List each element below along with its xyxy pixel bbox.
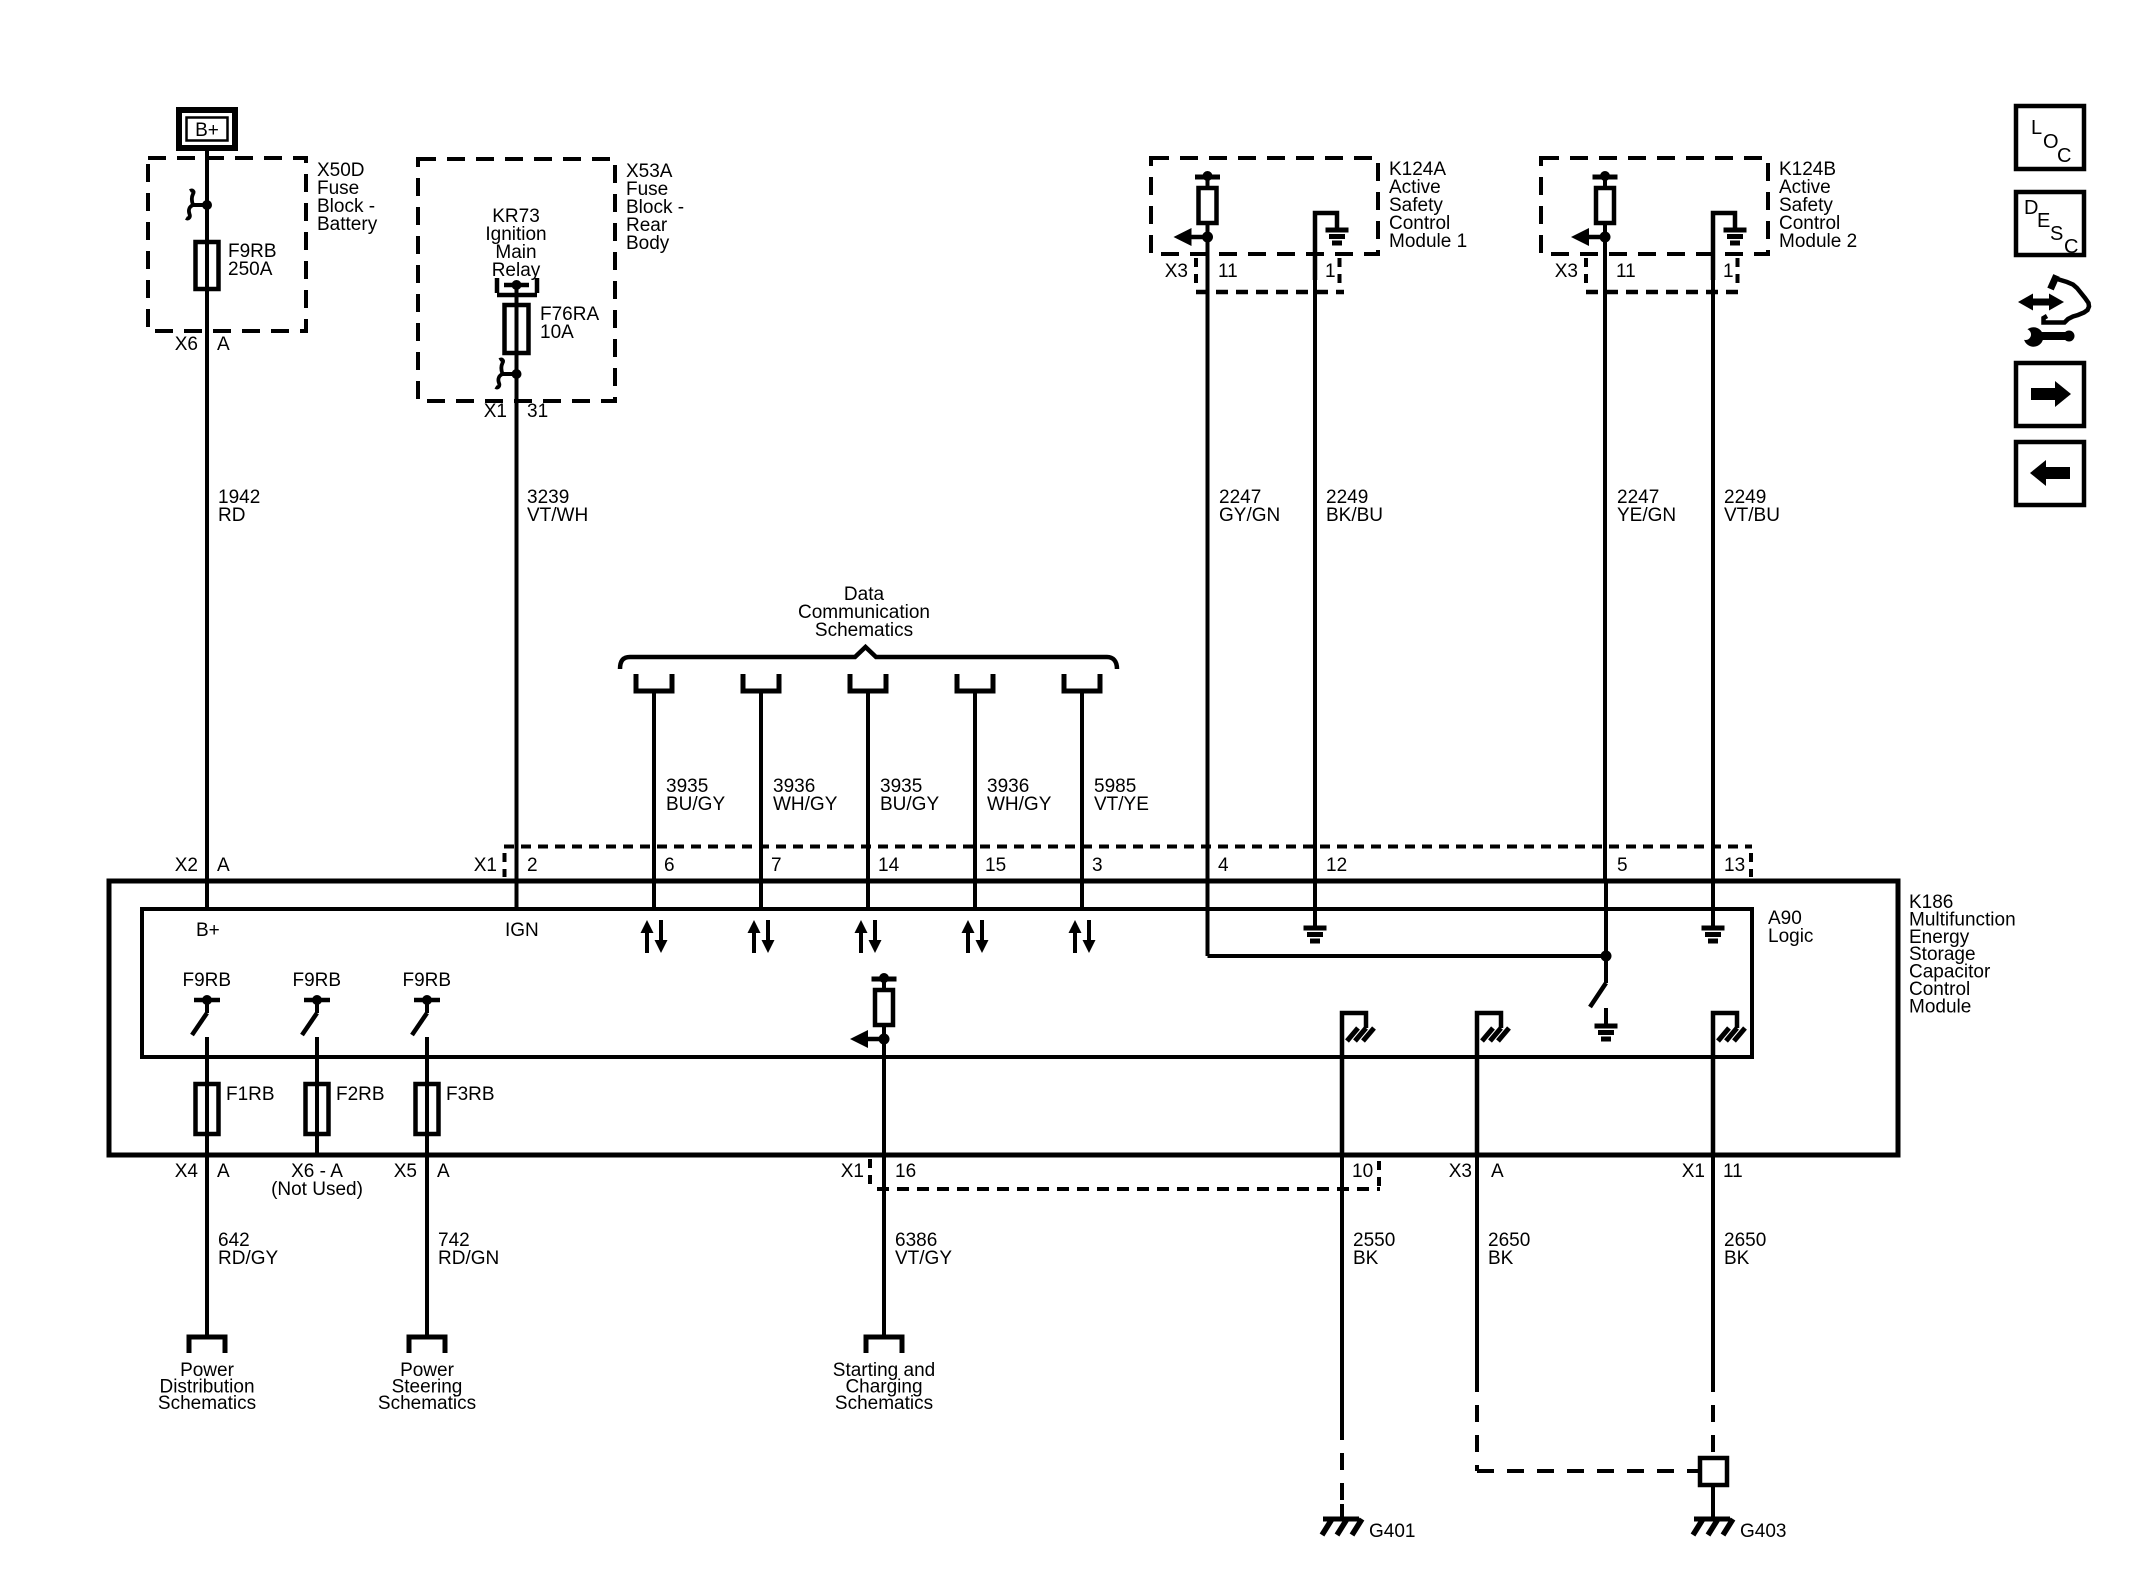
svg-text:GY/GN: GY/GN — [1219, 505, 1280, 526]
svg-text:A: A — [217, 855, 230, 876]
internal chassis ground X1-11 — [1713, 1013, 1745, 1157]
svg-text:Schematics: Schematics — [815, 620, 913, 641]
svg-text:Module 1: Module 1 — [1389, 231, 1467, 252]
internal node IGN label — [505, 920, 539, 941]
svg-text:7: 7 — [771, 855, 782, 876]
fuse F9RB 250A — [196, 242, 219, 289]
connector X3 pin A labels bottom — [1449, 1161, 1504, 1182]
svg-text:15: 15 — [985, 855, 1006, 876]
internal fuse F3RB — [416, 1084, 439, 1157]
module K124A label — [1389, 159, 1467, 252]
svg-text:C: C — [2057, 145, 2071, 167]
svg-text:B+: B+ — [195, 120, 219, 141]
wire 3239 VT/WH label — [527, 487, 588, 526]
wire 5985 VT/YE — [1080, 691, 1084, 911]
fuse block X50D label — [317, 160, 378, 235]
wire 2650 BK from X3-A — [1477, 1157, 1700, 1471]
pin 6 label — [664, 855, 675, 876]
logic block A90 inner box — [142, 909, 1752, 1057]
pin 7 label — [771, 855, 782, 876]
off-page connector data wire 3 — [850, 674, 886, 691]
connector X1 pin 2 labels — [474, 855, 538, 876]
data communication schematics label — [798, 584, 930, 641]
svg-text:13: 13 — [1724, 855, 1745, 876]
connector X1 pin 11 labels bottom — [1682, 1161, 1743, 1182]
svg-text:X2: X2 — [175, 855, 198, 876]
svg-text:14: 14 — [878, 855, 900, 876]
svg-text:Module: Module — [1909, 996, 1971, 1017]
svg-text:250A: 250A — [228, 259, 273, 280]
svg-text:X3: X3 — [1555, 261, 1578, 282]
svg-text:G403: G403 — [1740, 1521, 1786, 1542]
fuse block X50D dashed box — [148, 158, 306, 331]
connector X6 pin A labels — [175, 334, 230, 355]
pin 4 label — [1218, 855, 1229, 876]
wire B+ to fuse — [205, 150, 209, 242]
bidirectional signal arrows pin 3 — [1069, 920, 1096, 953]
icon harness double arrow — [2018, 294, 2064, 311]
svg-text:Body: Body — [626, 233, 670, 254]
svg-text:Logic: Logic — [1768, 926, 1813, 947]
svg-text:10A: 10A — [540, 322, 574, 343]
module K124A dashed box — [1151, 158, 1378, 254]
svg-text:BU/GY: BU/GY — [666, 794, 725, 815]
svg-text:BK: BK — [1488, 1248, 1514, 1269]
connector X2 pin A labels — [175, 855, 230, 876]
svg-text:11: 11 — [1218, 261, 1238, 282]
internal switch to ground — [1590, 883, 1618, 1039]
wire 3936 WH/GY — [759, 691, 763, 911]
wire 2247 GY/GN — [1206, 237, 1210, 883]
wire 3935 BU/GY — [866, 691, 870, 911]
svg-text:RD/GN: RD/GN — [438, 1248, 499, 1269]
pin 10 label — [1352, 1161, 1373, 1182]
svg-text:Schematics: Schematics — [378, 1393, 476, 1414]
connector X6 pin A not used label — [271, 1161, 363, 1200]
internal switch F9RB #3 — [403, 970, 452, 1084]
connector X5 pin A labels — [394, 1161, 450, 1182]
wire 742 RD/GN — [425, 1157, 429, 1337]
relay KR73 contact — [497, 278, 537, 295]
svg-text:11: 11 — [1723, 1161, 1743, 1182]
svg-text:G401: G401 — [1369, 1521, 1415, 1542]
svg-text:VT/BU: VT/BU — [1724, 505, 1780, 526]
connector X3 of K124A labels — [1165, 258, 1344, 292]
eyelet splice in X53A — [496, 359, 522, 387]
splice pack on ground 2650 — [1700, 1458, 1727, 1485]
brace over data wires — [620, 647, 1117, 669]
power distribution schematics label — [158, 1360, 256, 1414]
svg-text:10: 10 — [1352, 1161, 1373, 1182]
connector X1 dashed boundary bottom — [877, 1161, 1380, 1189]
eyelet splice in X50D — [186, 190, 212, 218]
svg-text:F2RB: F2RB — [336, 1084, 385, 1105]
ground G403 — [1693, 1519, 1733, 1535]
svg-text:A: A — [437, 1161, 450, 1182]
wire 2550 BK — [1340, 1157, 1344, 1519]
svg-text:Schematics: Schematics — [835, 1393, 933, 1414]
internal ground pin 12 — [1304, 883, 1327, 941]
wire splice to X1 pin 31 — [515, 374, 519, 420]
wire 2247 GY/GN label — [1219, 487, 1280, 526]
fuse F9RB 250A label — [228, 241, 277, 280]
wire 642 RD/GY label — [218, 1230, 279, 1269]
wire 2247 YE/GN label — [1617, 487, 1676, 526]
internal node B+ label — [196, 920, 220, 941]
svg-text:X1: X1 — [1682, 1161, 1705, 1182]
svg-text:X1: X1 — [841, 1161, 864, 1182]
module K186 outer box — [109, 881, 1898, 1155]
icon LOC button — [2016, 106, 2084, 169]
svg-text:4: 4 — [1218, 855, 1229, 876]
svg-text:6: 6 — [664, 855, 675, 876]
wire label 3936 WH/GY — [987, 776, 1052, 815]
svg-text:31: 31 — [527, 401, 548, 422]
logic block A90 label — [1768, 908, 1813, 947]
pin 12 label — [1326, 855, 1347, 876]
wire label 5985 VT/YE — [1094, 776, 1149, 815]
wire 6386 VT/GY — [882, 1157, 886, 1337]
internal chassis ground pin 10 — [1342, 1013, 1374, 1157]
resistor output driver in K124B — [1571, 171, 1618, 246]
relay KR73 label — [485, 206, 546, 281]
wire 2249 BK/BU — [1313, 280, 1317, 883]
svg-text:F1RB: F1RB — [226, 1084, 275, 1105]
wire label 3935 BU/GY — [880, 776, 939, 815]
internal wire pin 4 to switch — [1208, 883, 1607, 956]
svg-text:WH/GY: WH/GY — [987, 794, 1052, 815]
module K124B label — [1779, 159, 1857, 252]
wire 742 RD/GN label — [438, 1230, 499, 1269]
connector X1 pin 31 labels — [484, 401, 548, 422]
svg-text:X4: X4 — [175, 1161, 199, 1182]
wire 642 RD/GY — [205, 1157, 209, 1337]
fuse block X53A dashed box — [418, 159, 615, 401]
svg-text:F9RB: F9RB — [293, 970, 342, 991]
svg-text:RD: RD — [218, 505, 245, 526]
svg-text:F3RB: F3RB — [446, 1084, 495, 1105]
svg-text:RD/GY: RD/GY — [218, 1248, 279, 1269]
wire 2550 BK label — [1353, 1230, 1395, 1269]
icon wrench — [2020, 327, 2075, 347]
wire 2249 VT/BU label — [1724, 487, 1780, 526]
wire 3935 BU/GY — [652, 691, 656, 911]
svg-text:WH/GY: WH/GY — [773, 794, 838, 815]
internal fuse F2RB — [306, 1084, 329, 1157]
svg-text:A: A — [1491, 1161, 1504, 1182]
off-page connector power distribution — [189, 1337, 225, 1353]
svg-text:(Not Used): (Not Used) — [271, 1179, 363, 1200]
wire relay to fuse F76RA — [515, 285, 519, 305]
off-page connector data wire 5 — [1064, 674, 1100, 691]
svg-text:YE/GN: YE/GN — [1617, 505, 1676, 526]
off-page connector starting charging — [866, 1337, 902, 1353]
module K186 label — [1909, 892, 2016, 1017]
internal chassis ground X3-A — [1477, 1013, 1509, 1157]
connector X1 pin 16 labels — [841, 1159, 916, 1185]
wire 1942 RD label — [218, 487, 260, 526]
wire fuse F76RA to splice — [515, 353, 519, 374]
svg-text:VT/YE: VT/YE — [1094, 794, 1149, 815]
fuse block X53A label — [626, 161, 684, 254]
power steering schematics label — [378, 1360, 476, 1414]
wire 1942 RD — [205, 352, 209, 911]
wire label 3935 BU/GY — [666, 776, 725, 815]
svg-text:BK: BK — [1353, 1248, 1379, 1269]
svg-text:VT/GY: VT/GY — [895, 1248, 952, 1269]
wire 6386 VT/GY label — [895, 1230, 952, 1269]
connector X3 of K124B labels — [1555, 258, 1742, 292]
svg-text:E: E — [2037, 210, 2050, 232]
ground symbol in K124A — [1315, 213, 1349, 280]
connector X4 pin A labels — [175, 1161, 230, 1182]
wire fuse to X6 pin — [205, 289, 209, 352]
svg-text:X5: X5 — [394, 1161, 417, 1182]
svg-text:F9RB: F9RB — [403, 970, 452, 991]
off-page connector data wire 4 — [957, 674, 993, 691]
module K124B dashed box — [1541, 158, 1768, 254]
svg-text:1: 1 — [1723, 261, 1734, 282]
internal fuse F3RB label — [446, 1084, 495, 1105]
battery positive terminal B+ — [179, 110, 235, 148]
icon previous page button — [2016, 442, 2084, 505]
internal switch F9RB #2 — [293, 970, 342, 1084]
pin 3 label — [1092, 855, 1103, 876]
svg-text:A: A — [217, 334, 230, 355]
icon next page button — [2016, 363, 2084, 426]
svg-text:VT/WH: VT/WH — [527, 505, 588, 526]
wire 3239 VT/WH — [515, 420, 519, 911]
wire 2249 VT/BU — [1711, 280, 1715, 883]
icon DESC button — [2016, 192, 2084, 258]
svg-text:C: C — [2064, 236, 2078, 258]
ground G401 label — [1369, 1521, 1415, 1542]
svg-text:BK: BK — [1724, 1248, 1750, 1269]
off-page connector power steering — [409, 1337, 445, 1353]
connector X1 dashed boundary top — [504, 847, 1752, 878]
wire 2650 BK from X1-11 — [1711, 1157, 1715, 1458]
svg-text:X6: X6 — [175, 334, 198, 355]
wire 2249 BK/BU label — [1326, 487, 1383, 526]
wire label 3936 WH/GY — [773, 776, 838, 815]
svg-text:A: A — [217, 1161, 230, 1182]
pin 14 label — [878, 855, 900, 876]
pin 15 label — [985, 855, 1006, 876]
svg-text:Schematics: Schematics — [158, 1393, 256, 1414]
bidirectional signal arrows pin 15 — [962, 920, 989, 953]
svg-text:Relay: Relay — [492, 260, 541, 281]
svg-text:IGN: IGN — [505, 920, 539, 941]
wire splice to G403 — [1711, 1485, 1715, 1519]
wire 3936 WH/GY — [973, 691, 977, 911]
wire 2247 YE/GN — [1603, 237, 1607, 883]
svg-text:F9RB: F9RB — [183, 970, 232, 991]
svg-text:Module 2: Module 2 — [1779, 231, 1857, 252]
pin 5 label — [1617, 855, 1628, 876]
svg-text:BU/GY: BU/GY — [880, 794, 939, 815]
off-page connector data wire 1 — [636, 674, 672, 691]
bidirectional signal arrows pin 7 — [748, 920, 775, 953]
fuse F76RA 10A label — [540, 304, 599, 343]
wire 2650 BK from X3-A label — [1488, 1230, 1530, 1269]
svg-text:L: L — [2031, 117, 2042, 139]
svg-text:S: S — [2050, 223, 2063, 245]
internal resistor driver pin 16 — [850, 973, 897, 1157]
svg-text:5: 5 — [1617, 855, 1628, 876]
svg-text:Battery: Battery — [317, 214, 378, 235]
svg-text:1: 1 — [1325, 261, 1336, 282]
internal switch F9RB #1 — [183, 970, 232, 1084]
svg-text:11: 11 — [1616, 261, 1636, 282]
svg-text:BK/BU: BK/BU — [1326, 505, 1383, 526]
ground symbol in K124B — [1713, 213, 1747, 280]
internal ground pin 13 — [1702, 883, 1725, 941]
svg-text:2: 2 — [527, 855, 538, 876]
ground G401 — [1322, 1519, 1362, 1535]
svg-text:12: 12 — [1326, 855, 1347, 876]
icon component outline — [2044, 276, 2090, 323]
bidirectional signal arrows pin 14 — [855, 920, 882, 953]
svg-text:X1: X1 — [484, 401, 507, 422]
starting and charging schematics label — [833, 1360, 935, 1414]
resistor output driver in K124A — [1174, 171, 1221, 246]
svg-text:X1: X1 — [474, 855, 497, 876]
svg-text:3: 3 — [1092, 855, 1103, 876]
svg-text:X3: X3 — [1165, 261, 1188, 282]
svg-text:B+: B+ — [196, 920, 220, 941]
svg-text:X3: X3 — [1449, 1161, 1472, 1182]
off-page connector data wire 2 — [743, 674, 779, 691]
pin 13 label — [1724, 855, 1745, 876]
wire 2650 BK from X1-11 label — [1724, 1230, 1766, 1269]
internal fuse F1RB — [196, 1084, 219, 1157]
internal fuse F2RB label — [336, 1084, 385, 1105]
bidirectional signal arrows pin 6 — [641, 920, 668, 953]
ground G403 label — [1740, 1521, 1786, 1542]
svg-text:16: 16 — [895, 1161, 916, 1182]
fuse F76RA 10A — [505, 305, 529, 353]
internal fuse F1RB label — [226, 1084, 275, 1105]
